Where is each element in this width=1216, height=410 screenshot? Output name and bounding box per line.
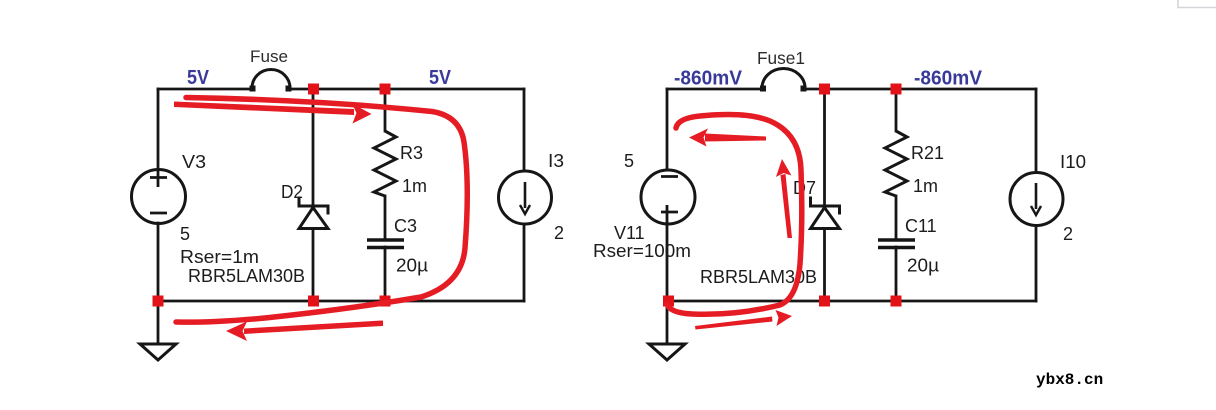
capacitor C3 — [367, 240, 404, 248]
capacitor C11 — [878, 240, 915, 248]
svg-text:D2: D2 — [281, 182, 303, 202]
wire I10 branch upper — [1035, 89, 1038, 172]
svg-text:20µ: 20µ — [907, 256, 939, 276]
wire C3 branch lower — [384, 247, 387, 301]
svg-text:ybx8.cn: ybx8.cn — [1036, 371, 1103, 389]
svg-text:RBR5LAM30B: RBR5LAM30B — [188, 266, 305, 286]
diode D7 (zener) — [811, 198, 840, 229]
svg-text:Fuse: Fuse — [250, 47, 288, 66]
svg-text:V11: V11 — [614, 223, 645, 243]
svg-text:R3: R3 — [400, 143, 423, 163]
svg-text:-860mV: -860mV — [914, 68, 983, 90]
svg-text:2: 2 — [1063, 224, 1073, 244]
junction bottom C11 node — [891, 296, 902, 307]
wire bottom rail — [158, 300, 524, 303]
junction top D2 node — [308, 84, 319, 95]
svg-text:I3: I3 — [548, 151, 564, 171]
wire bottom rail (right circuit) — [667, 300, 1036, 303]
annotation arrow left (right circuit top) — [689, 129, 766, 147]
resistor R21 — [885, 131, 907, 196]
wire top rail right segment — [289, 88, 524, 91]
junction top R21 node — [891, 84, 902, 95]
annotation arrow left (left circuit bottom) — [226, 321, 383, 342]
junction top R3 node — [380, 84, 391, 95]
junction bottom V11 node — [663, 296, 674, 307]
svg-text:C3: C3 — [394, 216, 417, 236]
svg-text:I10: I10 — [1060, 152, 1086, 172]
svg-text:Rser=1m: Rser=1m — [180, 247, 259, 267]
panel corner line (top right) — [1178, 0, 1216, 8]
annotation loop (right circuit current path) — [667, 115, 802, 315]
ground (right) — [649, 344, 685, 360]
annotation loop (left circuit current path) — [176, 98, 467, 323]
current source I3 arrowhead — [520, 205, 530, 214]
wire top rail left segment (node 5V) — [158, 88, 252, 91]
svg-text:Fuse1: Fuse1 — [757, 48, 805, 68]
ground (left) — [140, 344, 176, 360]
svg-text:C11: C11 — [905, 216, 937, 236]
wire R21-C11 interconnect — [895, 196, 898, 239]
annotation arrow right (right circuit bottom) — [695, 310, 792, 330]
svg-text:-860mV: -860mV — [674, 68, 743, 90]
current source I10 — [1010, 173, 1063, 226]
wire I3 branch lower — [523, 225, 526, 301]
wire left vertical to V3 — [157, 89, 160, 170]
fuse Fuse1 symbol arc — [762, 69, 805, 88]
svg-text:2: 2 — [554, 223, 564, 243]
svg-text:V3: V3 — [182, 152, 206, 172]
junction top D7 node — [819, 84, 830, 95]
wire I3 branch upper — [523, 89, 526, 171]
wire C11 branch lower — [895, 247, 898, 301]
wire D2 branch upper — [312, 89, 315, 205]
current source I3 — [499, 171, 552, 224]
svg-text:5V: 5V — [429, 67, 452, 89]
voltage source V3 — [132, 170, 186, 224]
wire ground stub (right) — [666, 301, 669, 343]
annotation arrow up (right circuit middle) — [776, 159, 792, 238]
svg-text:5: 5 — [180, 224, 190, 244]
svg-text:1m: 1m — [402, 176, 427, 196]
wire I10 branch lower — [1035, 226, 1038, 301]
wire D2 branch lower — [312, 229, 315, 301]
wire top rail right segment — [803, 88, 1036, 91]
wire R3 branch upper — [384, 89, 387, 131]
wire ground stub — [157, 301, 160, 343]
diode D2 (zener) — [299, 198, 328, 229]
junction bottom C3 node — [380, 296, 391, 307]
wire top rail left segment (node -860mV) — [667, 88, 763, 91]
junction bottom D2 node — [308, 296, 319, 307]
wire D7 branch upper — [823, 89, 826, 205]
svg-text:1m: 1m — [913, 176, 938, 196]
voltage source V11 — [641, 170, 695, 226]
svg-text:20µ: 20µ — [396, 256, 428, 276]
current source I10 arrowhead — [1031, 206, 1041, 215]
wire R3-C3 interconnect — [384, 196, 387, 239]
svg-text:5: 5 — [624, 151, 634, 171]
annotation arrow right (left circuit top) — [174, 102, 372, 124]
svg-text:5V: 5V — [187, 67, 210, 89]
wire V3 bottom to bottom rail — [157, 223, 160, 301]
svg-text:Rser=100m: Rser=100m — [593, 241, 691, 261]
svg-text:D7: D7 — [793, 178, 816, 198]
junction bottom D7 node — [819, 296, 830, 307]
fuse Fuse feet — [250, 86, 292, 92]
wire V11 bottom to bottom rail — [666, 223, 669, 301]
fuse F1 symbol arc — [252, 70, 290, 89]
wire left vertical to V11 — [666, 89, 669, 170]
resistor R3 — [374, 131, 396, 196]
junction bottom V3 node — [153, 296, 164, 307]
svg-text:R21: R21 — [911, 143, 944, 163]
fuse Fuse1 feet — [760, 86, 807, 92]
wire R21 branch upper — [895, 89, 898, 131]
wire D7 branch lower — [823, 229, 826, 301]
